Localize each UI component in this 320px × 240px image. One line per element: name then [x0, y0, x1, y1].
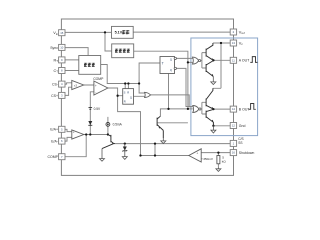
svg-text:Q: Q: [170, 58, 172, 62]
svg-text:14: 14: [232, 107, 236, 111]
svg-text:E/A-: E/A-: [51, 140, 59, 144]
svg-text:CT: CT: [54, 69, 59, 74]
svg-text:-: -: [197, 158, 198, 162]
svg-text:0.5mA: 0.5mA: [113, 122, 123, 126]
svg-text:-: -: [73, 136, 74, 140]
svg-text:Sync: Sync: [50, 46, 58, 50]
svg-text:5.1V: 5.1V: [115, 31, 123, 35]
svg-text:E/A+: E/A+: [50, 128, 58, 132]
svg-text:x3: x3: [74, 83, 78, 87]
svg-text:15: 15: [60, 31, 64, 35]
svg-text:13: 13: [232, 41, 236, 45]
svg-text:12: 12: [232, 124, 236, 128]
svg-text:Q: Q: [130, 95, 132, 99]
svg-text:Vc: Vc: [239, 41, 244, 46]
svg-text:CS+: CS+: [51, 94, 58, 98]
svg-text:Vin: Vin: [53, 31, 58, 36]
svg-text:COMP: COMP: [93, 77, 104, 81]
svg-text:T: T: [162, 61, 164, 65]
svg-text:0.5V: 0.5V: [94, 107, 101, 111]
svg-text:Shutdown: Shutdown: [239, 151, 255, 155]
svg-text:COMP: COMP: [48, 155, 59, 159]
svg-text:+: +: [95, 84, 97, 88]
svg-text:Gnd: Gnd: [239, 124, 246, 128]
svg-text:350mV: 350mV: [203, 157, 214, 161]
svg-text:SS: SS: [238, 141, 242, 145]
svg-text:+: +: [196, 152, 198, 156]
svg-text:RT: RT: [54, 58, 59, 63]
svg-text:R: R: [124, 100, 126, 104]
svg-text:Q: Q: [170, 68, 172, 72]
svg-text:CS-: CS-: [52, 83, 59, 87]
svg-text:11: 11: [232, 58, 235, 62]
svg-text:+: +: [73, 131, 75, 135]
svg-text:-: -: [95, 91, 96, 95]
svg-text:R: R: [127, 90, 129, 94]
svg-text:16: 16: [232, 151, 236, 155]
svg-text:S: S: [124, 90, 126, 94]
svg-text:Vref: Vref: [239, 30, 245, 35]
svg-text:10: 10: [60, 45, 64, 49]
svg-text:A OUT: A OUT: [239, 59, 250, 63]
svg-text:kΩ: kΩ: [222, 160, 227, 164]
